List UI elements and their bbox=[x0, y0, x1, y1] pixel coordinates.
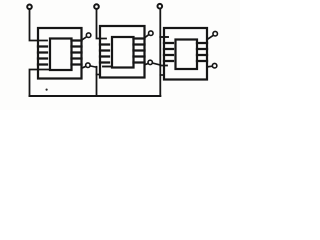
wire: riser hook to T2 corner bbox=[97, 74, 101, 76]
T3 left winding turns bbox=[164, 43, 173, 61]
wire: H2 lead down to winding 2 entry bbox=[97, 9, 107, 38]
transformer T3 core (inner rectangle) bbox=[176, 40, 198, 70]
terminal X2 of T1 (bottom-right circle) bbox=[86, 63, 91, 68]
terminal X1 of T2 (top-right circle) bbox=[149, 31, 154, 36]
wire: T2 winding exit bar bbox=[103, 66, 112, 68]
wire: T1 top-right lead bbox=[82, 37, 87, 40]
wire: T3 winding exit hook bbox=[160, 65, 167, 67]
wire: T2 bottom-right lead bbox=[145, 64, 149, 65]
T1 left winding turns bbox=[38, 47, 47, 65]
wire: mid riser down to bottom bus bbox=[96, 67, 98, 96]
wire: H3 lead down column to bottom bus bbox=[159, 9, 161, 96]
wire: bottom bus bbox=[30, 95, 161, 97]
transformer T2 outer winding rectangle bbox=[100, 26, 145, 78]
terminal X1 of T3 (top-right circle) bbox=[213, 31, 218, 36]
transformer T1 outer winding rectangle bbox=[38, 28, 82, 79]
terminal H2 (top circle, phase B) bbox=[94, 4, 99, 9]
transformer T3 outer winding rectangle bbox=[164, 28, 207, 80]
terminal H3 (top circle, phase C) bbox=[158, 4, 163, 9]
wire: T2 top-right lead bbox=[145, 35, 149, 38]
wire: T3 bottom-right lead bbox=[207, 65, 212, 68]
terminal X2 of T3 (bottom-right circle) bbox=[212, 63, 217, 68]
T2 left winding turns bbox=[100, 45, 109, 63]
wire: X2 of T2 tail to right column bbox=[152, 63, 160, 65]
T1 right winding turns bbox=[72, 41, 82, 65]
scan speck bbox=[46, 89, 48, 91]
wire: X2 tail to mid riser bbox=[90, 66, 96, 67]
terminal X2 of T2 (bottom-right circle) bbox=[148, 60, 152, 64]
wire: T3 entry hook from H3 column bbox=[160, 36, 168, 38]
wire: H1 lead down to winding 1 entry bbox=[30, 9, 48, 41]
wire: T3 top-right lead bbox=[207, 36, 213, 40]
terminal H1 (top circle, phase A) bbox=[27, 5, 32, 10]
wire: T1 bottom-right lead bbox=[82, 66, 86, 68]
transformer T1 core (inner rectangle) bbox=[50, 39, 72, 71]
transformer T2 core (inner rectangle) bbox=[112, 37, 134, 68]
wire: column hook to T3 corner bbox=[160, 74, 164, 76]
T3 right winding turns bbox=[197, 43, 207, 61]
T2 right winding turns bbox=[134, 39, 145, 63]
wire: T1 winding exit to left riser and bottom bus bbox=[30, 70, 51, 97]
terminal X1 of T1 (top-right circle) bbox=[86, 33, 91, 38]
